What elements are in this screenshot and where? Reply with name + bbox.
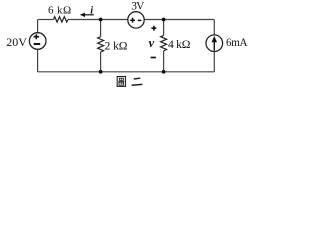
node A top left junction dot (99, 18, 103, 22)
svg-text:4 kΩ: 4 kΩ (168, 38, 191, 51)
svg-text:2 kΩ: 2 kΩ (105, 39, 128, 52)
wire bottom (38, 71, 215, 73)
caption glyph ER (two) strokes (134, 77, 140, 80)
node B top right junction dot (162, 18, 166, 22)
V2 minus sign (138, 19, 142, 21)
wire right vertical (213, 20, 215, 35)
svg-text:6mA: 6mA (226, 37, 247, 49)
voltage source V2 3V circle (128, 12, 144, 28)
V2 plus sign (130, 18, 135, 23)
resistor R 6k zigzag (54, 17, 69, 23)
svg-text:i: i (90, 6, 93, 17)
resistor R 4k zigzag (161, 35, 167, 51)
V1 plus sign (34, 34, 40, 39)
svg-text:20V: 20V (6, 35, 27, 49)
svg-text:v: v (149, 36, 155, 50)
node D bottom right junction dot (162, 70, 166, 74)
wire top left segment (38, 19, 54, 21)
wire top right of 3V to corner (144, 19, 214, 21)
wire top mid segment (68, 19, 128, 21)
current arrow i (84, 14, 94, 16)
minus sign of v annotation (151, 57, 156, 59)
wire left vertical (37, 20, 39, 33)
caption glyph TU (Figure) box (117, 77, 125, 87)
resistor R 2k zigzag (98, 37, 104, 52)
wire 4k branch (163, 20, 165, 36)
svg-text:6 kΩ: 6 kΩ (48, 4, 72, 16)
I1 arrow up (213, 42, 215, 51)
plus sign of v annotation (151, 26, 156, 31)
svg-text:3V: 3V (131, 1, 145, 13)
voltage source V1 20V circle (29, 33, 46, 50)
V1 minus sign (34, 43, 41, 45)
node C bottom left junction dot (99, 70, 103, 74)
current source I1 6mA circle (206, 35, 223, 52)
wire 2k branch (100, 20, 102, 37)
